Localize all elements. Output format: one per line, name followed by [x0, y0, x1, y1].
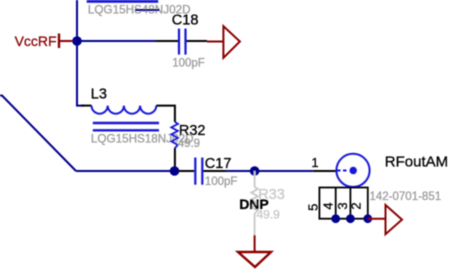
wire diagonal: [0, 96, 76, 172]
svg-text:100pF: 100pF: [205, 176, 238, 188]
resistor R33 (DNP, gray): [251, 171, 258, 235]
svg-text:49.9: 49.9: [178, 138, 200, 150]
power port VccRF: [15, 33, 74, 49]
svg-text:RFoutAM: RFoutAM: [385, 154, 448, 171]
svg-text:DNP: DNP: [239, 196, 269, 212]
capacitor C18: [156, 29, 208, 55]
svg-text:1: 1: [311, 155, 318, 170]
svg-text:5: 5: [306, 204, 321, 211]
resistor R32: [171, 122, 178, 167]
wire (horizontal stub over L2 label): [135, 9, 160, 11]
junction dots on shield pins: [331, 214, 340, 223]
inductor L2 core line (cut off at top): [87, 0, 159, 3]
ground symbol: [238, 252, 271, 267]
svg-text:VccRF: VccRF: [15, 33, 57, 49]
wire VccRF junction to C18: [77, 40, 156, 42]
connector shield box: [319, 188, 367, 219]
svg-text:4: 4: [320, 202, 335, 209]
junction at VccRF: [72, 36, 82, 46]
svg-text:C17: C17: [205, 156, 232, 172]
ground stem: [254, 235, 256, 252]
svg-text:2: 2: [349, 202, 364, 209]
svg-text:R32: R32: [179, 123, 206, 139]
junction 2: [250, 166, 260, 176]
connector pin 1: [313, 170, 337, 172]
svg-text:142-0701-851: 142-0701-851: [370, 191, 442, 203]
port arrow (bottom right): [386, 205, 403, 234]
power port arrow (right of C18): [207, 26, 240, 58]
coax connector circle: [336, 154, 369, 187]
wire horizontal bottom: [76, 170, 183, 172]
svg-text:L3: L3: [91, 87, 107, 103]
svg-text:C18: C18: [172, 12, 199, 28]
wire shield to port: [368, 218, 386, 220]
svg-text:100pF: 100pF: [172, 57, 205, 69]
junction at R32 bottom: [170, 166, 180, 176]
inductor L3: [81, 106, 175, 131]
wire vertical from top: [77, 0, 84, 106]
wire C17 to junction 2: [226, 170, 313, 172]
capacitor C17: [179, 158, 227, 185]
